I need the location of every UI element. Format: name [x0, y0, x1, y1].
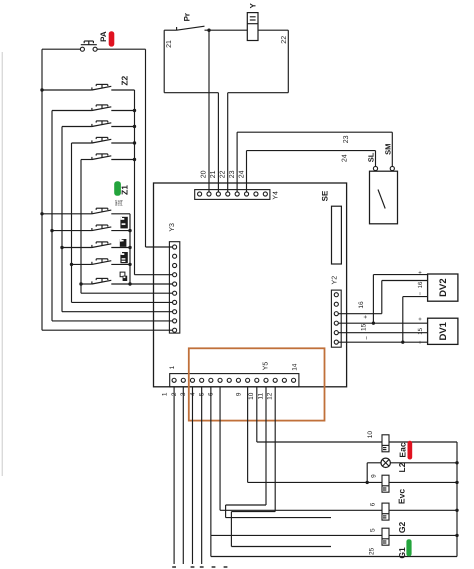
- label 24: [342, 154, 349, 162]
- solenoid Y: [247, 13, 258, 41]
- label Y3: [169, 223, 176, 232]
- label 22: [281, 36, 288, 44]
- switch Z2.5: [81, 154, 136, 161]
- wire 16 (Y2.3 to DV2): [338, 281, 427, 314]
- level sensor SL-SM box: [370, 166, 398, 223]
- label Pr: [183, 13, 192, 21]
- wire 20: [208, 30, 210, 192]
- wire 15 (Y2.5 to DV1): [338, 332, 427, 334]
- label 15: [361, 323, 368, 331]
- wire 10 (Y5 pin10 to Eac): [257, 387, 382, 442]
- svg-text:6: 6: [370, 502, 377, 506]
- switch Z1.5: [79, 278, 131, 285]
- label SM: [384, 144, 393, 155]
- switch Z1.1: [40, 208, 130, 215]
- svg-text:16: 16: [417, 281, 424, 288]
- svg-text:G2: G2: [397, 522, 407, 534]
- label 6 wire: [370, 502, 377, 506]
- switch Z1.4: [70, 259, 132, 266]
- wire 22 loop: [228, 30, 289, 192]
- wire 24: [247, 151, 376, 192]
- label Z2: [119, 75, 129, 85]
- switch Z2.3: [62, 121, 136, 128]
- svg-text:SL: SL: [366, 152, 375, 162]
- label SE: [321, 190, 330, 201]
- flowmeter DV1: [428, 318, 458, 344]
- label DV2: [438, 278, 449, 296]
- svg-text:prog: prog: [119, 200, 123, 206]
- label Y: [248, 2, 257, 8]
- wire 5 (Y5 pin5 to G1): [211, 387, 382, 536]
- svg-text:DV1: DV1: [438, 321, 449, 340]
- orange highlight box: [189, 348, 325, 420]
- svg-text:DV2: DV2: [438, 278, 449, 296]
- connector Y5: [170, 374, 299, 387]
- label - wire: [364, 336, 371, 340]
- svg-text:23: 23: [343, 135, 350, 143]
- svg-text:+: +: [418, 317, 424, 321]
- label G1: [397, 547, 407, 559]
- wire Eac to rail: [389, 441, 457, 443]
- switch Pr: [164, 26, 247, 30]
- label SL: [366, 152, 375, 162]
- svg-text:Z2: Z2: [119, 75, 129, 85]
- icon 1-cup outline (Z1.5): [120, 272, 127, 281]
- label Y5 pin2: [171, 392, 178, 396]
- wire Z1 rail to Y3 pin5: [130, 283, 173, 285]
- svg-text:SE: SE: [321, 190, 330, 201]
- wire Z1 common rail: [129, 214, 131, 284]
- wire Y5 pin3 down: [191, 387, 193, 564]
- wire PA right to Y3 pin1: [146, 49, 173, 247]
- label Z1: [120, 185, 130, 195]
- icon 1-cup (Z1.3): [120, 239, 127, 247]
- wire lamp to rail: [390, 462, 457, 464]
- svg-text:16: 16: [358, 301, 365, 309]
- wire G1 to rail: [389, 534, 457, 536]
- wire Y5 pin4 down: [201, 387, 203, 564]
- wire vertical x81 (Z2.5 / Z1.5 to Y3 pin6): [81, 160, 173, 294]
- svg-text:Evc: Evc: [397, 489, 407, 504]
- wire Y5 pin1 down: [173, 387, 175, 564]
- switch Z1.3: [60, 242, 131, 249]
- wire vertical x62 (Z2.3 / Z1.3 to Y3 pin8): [62, 127, 173, 312]
- icon 2-cup (Z1.2): [120, 217, 127, 229]
- label Y5 pin12: [267, 392, 274, 400]
- pushbutton PA contacts: [80, 41, 97, 51]
- control unit block: [154, 183, 347, 387]
- wire G2 to rail: [389, 509, 457, 511]
- svg-text:21: 21: [166, 40, 173, 48]
- label L2: [397, 462, 407, 472]
- switch Z2.1: [40, 84, 134, 91]
- svg-text:22: 22: [220, 170, 227, 178]
- wire 25 (to common rail): [211, 535, 457, 556]
- wire PA right: [97, 48, 145, 50]
- svg-text:11: 11: [257, 393, 264, 400]
- svg-text:10: 10: [248, 392, 255, 400]
- label 21: [166, 40, 173, 48]
- svg-text:PA: PA: [99, 31, 108, 42]
- label Y5 pin11: [257, 393, 264, 400]
- wire 6 (Y5 pin6 to G2): [220, 387, 382, 510]
- label 22 pin: [220, 170, 227, 178]
- electrode SE: [332, 206, 342, 264]
- label Y5 pin1: [162, 392, 169, 396]
- heater G2: [382, 503, 389, 520]
- wire - (Y2.6 to DV1/DV2): [338, 297, 427, 344]
- icon 2-cup large (Z1.4): [120, 252, 127, 263]
- connector Y3: [169, 242, 179, 333]
- valve Evc: [382, 475, 389, 492]
- svg-text:23: 23: [229, 170, 236, 178]
- svg-text:Y5: Y5: [263, 362, 270, 371]
- green indicator bar G1: [406, 539, 411, 556]
- svg-text:1: 1: [162, 392, 169, 396]
- label 21 pin: [210, 170, 217, 178]
- svg-text:24: 24: [238, 170, 245, 178]
- label 9 wire: [370, 474, 377, 478]
- svg-text:20: 20: [201, 170, 208, 178]
- svg-text:SM: SM: [384, 144, 393, 155]
- svg-text:Y: Y: [248, 2, 257, 8]
- label Eac: [397, 442, 407, 457]
- valve Eac: [382, 435, 389, 452]
- svg-text:25: 25: [369, 547, 376, 555]
- svg-text:Y3: Y3: [169, 223, 176, 232]
- label Y5 pin10: [248, 392, 255, 400]
- svg-text:−: −: [418, 291, 424, 295]
- svg-text:9: 9: [235, 392, 242, 396]
- red indicator bar PA: [109, 31, 115, 46]
- svg-text:+: +: [363, 315, 370, 319]
- svg-text:Pr: Pr: [183, 13, 192, 21]
- svg-text:15: 15: [361, 323, 368, 331]
- svg-text:9: 9: [370, 474, 377, 478]
- flowmeter DV2: [428, 274, 458, 301]
- svg-text:12: 12: [267, 392, 274, 400]
- label 10 wire: [367, 431, 374, 439]
- svg-text:G1: G1: [397, 547, 407, 559]
- node Pr junction: [207, 29, 210, 32]
- wire Z2 common rail to Y3 pin4: [135, 90, 173, 275]
- wire Evc to rail: [389, 481, 457, 483]
- switch Z2.4: [72, 137, 137, 144]
- svg-text:Y4: Y4: [273, 191, 280, 200]
- label PA: [99, 31, 108, 42]
- wire Y5 pin11 jog: [226, 387, 331, 518]
- svg-text:22: 22: [281, 36, 288, 44]
- wire lamp branch: [366, 463, 382, 484]
- svg-text:Eac: Eac: [397, 442, 407, 457]
- svg-text:14: 14: [292, 363, 299, 371]
- label Y5 pin14 top: [292, 363, 299, 371]
- svg-text:15: 15: [417, 327, 424, 334]
- connector Y4: [195, 190, 270, 200]
- label + wire: [363, 315, 370, 319]
- svg-text:+: +: [418, 270, 424, 274]
- green indicator bar Z1: [114, 181, 121, 196]
- label Y2: [331, 276, 338, 285]
- connector Y2: [331, 290, 341, 347]
- label Y5 pin3: [180, 392, 187, 396]
- svg-text:10: 10: [367, 431, 374, 439]
- switch Z1.2: [50, 225, 131, 232]
- label DV1 terminals: [417, 317, 424, 344]
- scan edge artifact: [1, 52, 3, 476]
- label 20 pin: [201, 170, 208, 178]
- svg-text:1: 1: [169, 365, 176, 369]
- wire PA left: [42, 48, 80, 50]
- label Y5 pin4: [189, 392, 196, 396]
- label 16: [358, 301, 365, 309]
- wire node A vertical x42 (PA left / Z2.1 / Z1.1 to Y3 pin10): [42, 49, 173, 330]
- cropped wire stubs: [172, 566, 227, 568]
- wire vertical x52 (Z2.2 / Z1.2 to Y3 pin9): [52, 111, 173, 321]
- label 24 pin: [238, 170, 245, 178]
- wire Y5 pin12 jog: [231, 387, 331, 547]
- label start stop prog: [114, 200, 123, 206]
- label 23 pin: [229, 170, 236, 178]
- wire common rail: [455, 442, 458, 557]
- red indicator bar Eac: [408, 441, 413, 460]
- label G2: [397, 522, 407, 534]
- heater G1: [382, 528, 389, 545]
- label Y5: [263, 362, 270, 371]
- label Evc: [397, 489, 407, 504]
- svg-text:24: 24: [342, 154, 349, 162]
- wire 21 loop: [164, 30, 218, 192]
- switch Z2.2: [52, 105, 136, 112]
- label Y5 pin1 top: [169, 365, 176, 369]
- wire Y5 pin2 down: [182, 387, 184, 564]
- label 23: [343, 135, 350, 143]
- svg-text:5: 5: [370, 528, 377, 532]
- svg-text:21: 21: [210, 170, 217, 178]
- wire + (Y2.4 to DV2/DV1): [338, 275, 427, 325]
- svg-text:−: −: [418, 340, 424, 344]
- label DV2 terminals: [417, 270, 424, 295]
- label Y4: [273, 191, 280, 200]
- wire 9 (Y5 pin9 to Evc): [248, 387, 382, 483]
- svg-text:L2: L2: [397, 462, 407, 472]
- wire vertical x71.5 (Z2.4 / Z1.4 to Y3 pin7): [72, 143, 173, 302]
- wire 23: [237, 132, 392, 192]
- svg-text:Z1: Z1: [120, 185, 130, 195]
- label 5 wire: [370, 528, 377, 532]
- label Y5 pin9: [235, 392, 242, 396]
- label 25 wire: [369, 547, 376, 555]
- lamp L2: [381, 458, 390, 467]
- label Y5 pin5: [199, 392, 206, 396]
- svg-text:Y2: Y2: [331, 276, 338, 285]
- label Y5 pin6: [208, 392, 215, 396]
- label DV1: [438, 321, 449, 340]
- svg-text:−: −: [364, 336, 371, 340]
